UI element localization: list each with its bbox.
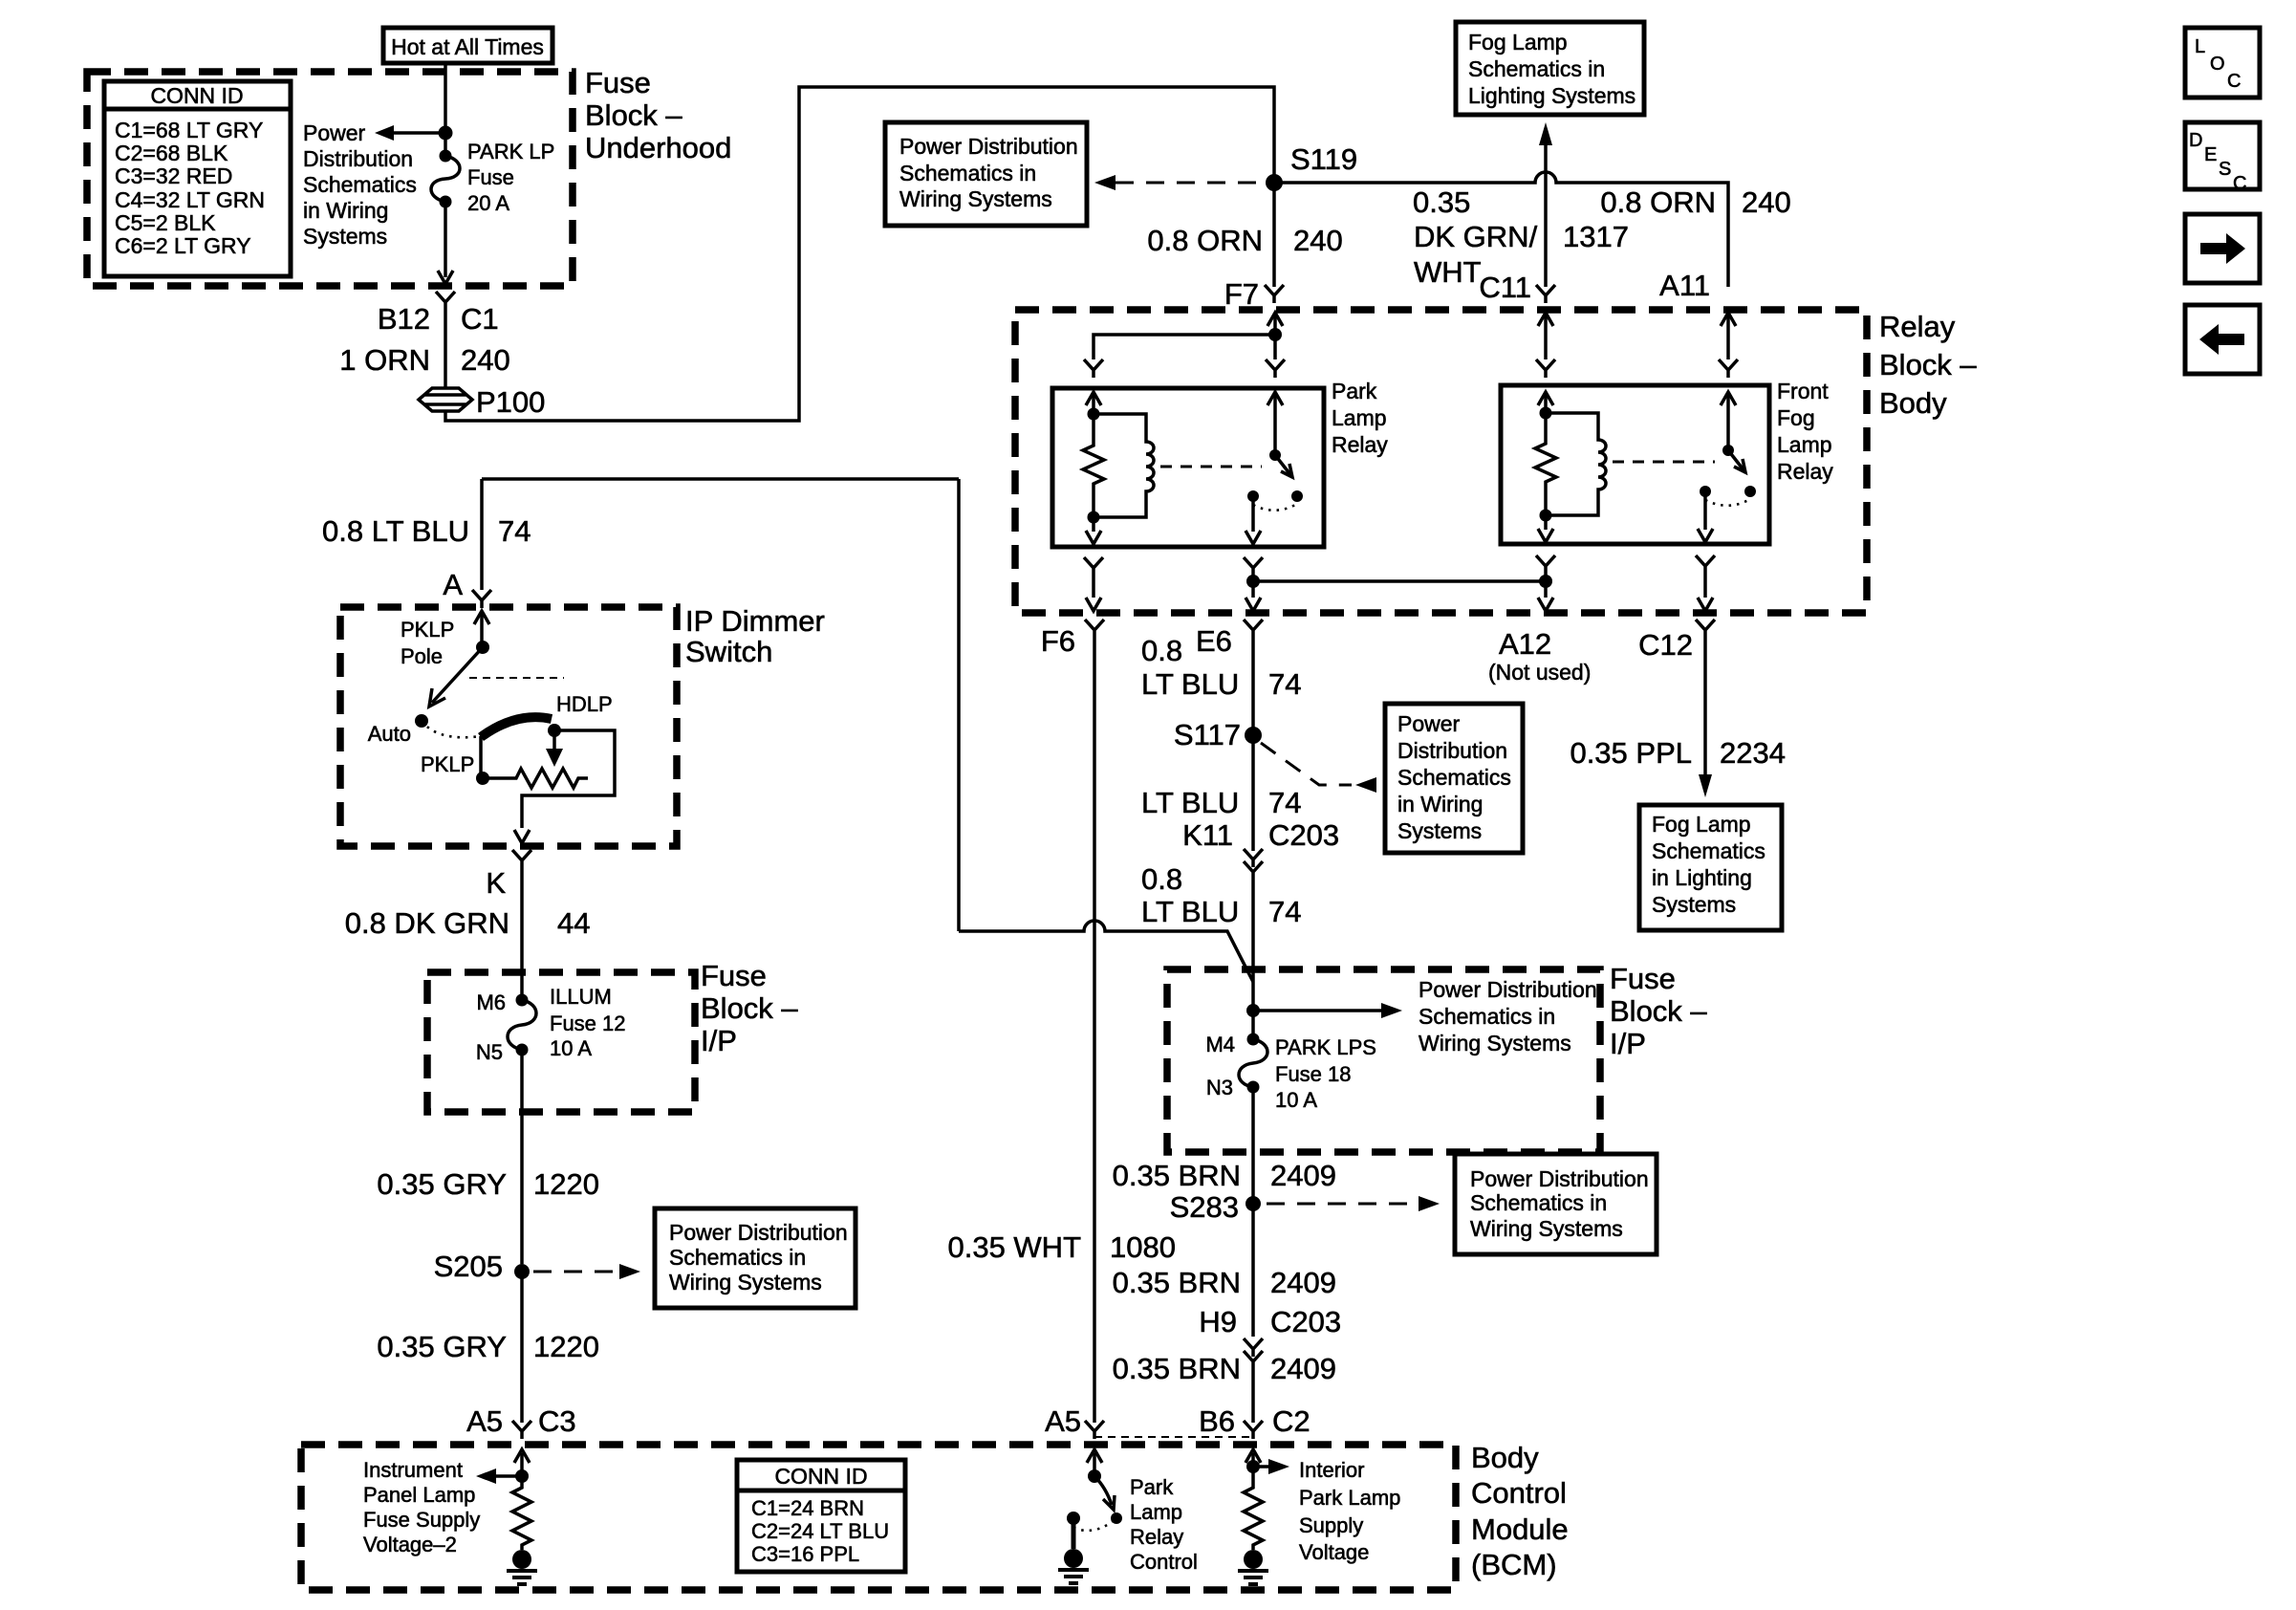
svg-text:Block –: Block –: [1610, 994, 1707, 1028]
svg-text:0.35 BRN: 0.35 BRN: [1113, 1352, 1241, 1385]
svg-text:in Wiring: in Wiring: [303, 198, 388, 223]
svg-text:C4=32 LT GRN: C4=32 LT GRN: [115, 187, 265, 212]
svg-text:Distribution: Distribution: [303, 146, 413, 171]
svg-text:C3=32 RED: C3=32 RED: [115, 163, 232, 188]
svg-text:I/P: I/P: [701, 1024, 737, 1057]
svg-text:0.8 ORN: 0.8 ORN: [1600, 185, 1716, 219]
svg-text:C1=24 BRN: C1=24 BRN: [751, 1496, 864, 1520]
svg-text:C203: C203: [1268, 818, 1339, 852]
svg-text:Wiring Systems: Wiring Systems: [669, 1270, 822, 1295]
svg-text:H9: H9: [1199, 1305, 1237, 1338]
svg-text:Fuse: Fuse: [467, 165, 514, 189]
svg-text:C12: C12: [1638, 628, 1693, 662]
svg-text:C3=16 PPL: C3=16 PPL: [751, 1542, 859, 1566]
svg-text:A5: A5: [1045, 1404, 1081, 1438]
svg-text:CONN ID: CONN ID: [150, 83, 243, 108]
svg-text:Park Lamp: Park Lamp: [1299, 1486, 1400, 1510]
svg-text:2234: 2234: [1720, 736, 1786, 770]
svg-text:2409: 2409: [1270, 1266, 1336, 1299]
svg-text:F6: F6: [1041, 624, 1075, 658]
svg-text:Fuse: Fuse: [1610, 962, 1676, 995]
svg-text:F7: F7: [1224, 277, 1259, 311]
svg-text:Block –: Block –: [585, 98, 682, 132]
svg-text:Fuse 12: Fuse 12: [550, 1012, 626, 1035]
svg-text:C: C: [2227, 71, 2241, 92]
svg-text:S205: S205: [434, 1250, 503, 1283]
svg-text:Systems: Systems: [1397, 818, 1482, 843]
svg-text:Relay: Relay: [1879, 310, 1956, 343]
svg-text:M6: M6: [476, 990, 506, 1014]
svg-text:Fuse Supply: Fuse Supply: [363, 1508, 480, 1532]
svg-text:2409: 2409: [1270, 1159, 1336, 1192]
svg-text:Lamp: Lamp: [1777, 432, 1832, 457]
svg-text:PARK LPS: PARK LPS: [1275, 1035, 1376, 1059]
svg-text:0.8: 0.8: [1141, 634, 1182, 667]
svg-text:1080: 1080: [1110, 1230, 1176, 1264]
svg-text:240: 240: [461, 343, 510, 377]
svg-text:Systems: Systems: [303, 224, 387, 249]
svg-text:(Not used): (Not used): [1488, 660, 1591, 685]
svg-text:Systems: Systems: [1652, 892, 1736, 917]
svg-text:0.35 BRN: 0.35 BRN: [1113, 1159, 1241, 1192]
svg-text:C1=68 LT GRY: C1=68 LT GRY: [115, 118, 263, 142]
svg-text:C3: C3: [538, 1404, 576, 1438]
svg-text:LT BLU: LT BLU: [1141, 786, 1239, 819]
svg-text:Panel Lamp: Panel Lamp: [363, 1483, 475, 1507]
svg-text:Hot at All Times: Hot at All Times: [391, 34, 544, 59]
svg-text:S117: S117: [1174, 718, 1241, 751]
svg-text:S: S: [2219, 159, 2231, 180]
svg-text:Wiring Systems: Wiring Systems: [899, 186, 1052, 211]
svg-text:K: K: [486, 866, 506, 900]
svg-text:HDLP: HDLP: [556, 692, 613, 716]
svg-text:Schematics in: Schematics in: [1470, 1190, 1607, 1215]
svg-text:D: D: [2189, 130, 2202, 151]
svg-text:K11: K11: [1182, 818, 1233, 852]
svg-text:(BCM): (BCM): [1471, 1548, 1557, 1581]
svg-text:0.35 BRN: 0.35 BRN: [1113, 1266, 1241, 1299]
svg-text:Lighting Systems: Lighting Systems: [1468, 83, 1635, 108]
svg-text:0.35 PPL: 0.35 PPL: [1570, 736, 1692, 770]
svg-text:PKLP: PKLP: [421, 752, 474, 776]
svg-text:Schematics: Schematics: [1652, 838, 1765, 863]
svg-text:0.8 DK GRN: 0.8 DK GRN: [345, 906, 509, 940]
svg-text:Voltage–2: Voltage–2: [363, 1533, 457, 1556]
svg-text:LT BLU: LT BLU: [1141, 895, 1239, 928]
svg-text:N5: N5: [476, 1040, 503, 1064]
svg-text:Park: Park: [1332, 379, 1377, 403]
svg-text:Fuse: Fuse: [585, 66, 651, 99]
svg-text:Block –: Block –: [701, 991, 798, 1025]
svg-text:PKLP: PKLP: [401, 618, 454, 642]
svg-text:C203: C203: [1270, 1305, 1341, 1338]
svg-text:Fog Lamp: Fog Lamp: [1468, 30, 1568, 54]
svg-text:Control: Control: [1130, 1550, 1198, 1574]
svg-text:1220: 1220: [533, 1330, 599, 1363]
svg-text:0.8 LT BLU: 0.8 LT BLU: [322, 514, 469, 548]
svg-text:Distribution: Distribution: [1397, 738, 1507, 763]
svg-text:Schematics in: Schematics in: [669, 1245, 806, 1270]
svg-text:L: L: [2195, 36, 2205, 57]
svg-text:Relay: Relay: [1332, 432, 1388, 457]
svg-text:Park: Park: [1130, 1475, 1174, 1499]
svg-text:Body: Body: [1471, 1441, 1539, 1474]
svg-text:P100: P100: [476, 385, 545, 419]
svg-text:0.35 GRY: 0.35 GRY: [377, 1330, 507, 1363]
svg-text:DK GRN/: DK GRN/: [1414, 220, 1538, 253]
svg-text:Fog: Fog: [1777, 405, 1815, 430]
svg-text:A: A: [443, 568, 463, 601]
svg-text:Auto: Auto: [368, 722, 411, 746]
svg-text:Schematics: Schematics: [1397, 765, 1511, 790]
svg-text:74: 74: [498, 514, 531, 548]
svg-text:in Wiring: in Wiring: [1397, 792, 1483, 816]
svg-text:0.8: 0.8: [1141, 862, 1182, 896]
svg-text:240: 240: [1293, 224, 1343, 257]
svg-text:B12: B12: [378, 302, 430, 336]
svg-text:C2=68 BLK: C2=68 BLK: [115, 141, 228, 165]
svg-text:A12: A12: [1499, 627, 1551, 661]
svg-text:10 A: 10 A: [550, 1036, 592, 1060]
svg-text:Relay: Relay: [1777, 459, 1833, 484]
svg-text:Module: Module: [1471, 1512, 1569, 1546]
svg-text:Interior: Interior: [1299, 1458, 1364, 1482]
svg-text:74: 74: [1268, 895, 1301, 928]
svg-text:1 ORN: 1 ORN: [339, 343, 430, 377]
svg-text:1317: 1317: [1563, 220, 1629, 253]
svg-text:240: 240: [1742, 185, 1791, 219]
svg-text:I/P: I/P: [1610, 1027, 1646, 1060]
svg-text:10 A: 10 A: [1275, 1088, 1317, 1112]
svg-text:LT BLU: LT BLU: [1141, 667, 1239, 701]
svg-text:Relay: Relay: [1130, 1525, 1183, 1549]
svg-text:C1: C1: [461, 302, 499, 336]
svg-text:Front: Front: [1777, 379, 1829, 403]
svg-text:Voltage: Voltage: [1299, 1540, 1369, 1564]
svg-text:Switch: Switch: [685, 635, 772, 668]
svg-text:ILLUM: ILLUM: [550, 985, 612, 1009]
svg-text:0.35 GRY: 0.35 GRY: [377, 1167, 507, 1201]
svg-text:A11: A11: [1659, 269, 1710, 302]
svg-text:20 A: 20 A: [467, 191, 509, 215]
svg-text:C11: C11: [1479, 271, 1531, 304]
svg-text:Power: Power: [1397, 711, 1461, 736]
svg-text:74: 74: [1268, 667, 1301, 701]
svg-text:1220: 1220: [533, 1167, 599, 1201]
svg-text:C5=2 BLK: C5=2 BLK: [115, 210, 216, 235]
svg-text:O: O: [2210, 54, 2225, 75]
svg-text:IP Dimmer: IP Dimmer: [685, 604, 825, 638]
svg-text:C: C: [2233, 173, 2246, 194]
svg-text:Power Distribution: Power Distribution: [1419, 977, 1597, 1002]
svg-text:Schematics: Schematics: [303, 172, 417, 197]
svg-text:CONN ID: CONN ID: [774, 1464, 867, 1489]
svg-text:PARK LP: PARK LP: [467, 140, 554, 163]
svg-text:C2=24 LT BLU: C2=24 LT BLU: [751, 1519, 889, 1543]
svg-text:Power Distribution: Power Distribution: [669, 1220, 848, 1245]
svg-text:0.35 WHT: 0.35 WHT: [947, 1230, 1081, 1264]
svg-text:E6: E6: [1196, 624, 1232, 658]
svg-text:Power Distribution: Power Distribution: [899, 134, 1078, 159]
svg-text:C6=2 LT GRY: C6=2 LT GRY: [115, 233, 251, 258]
svg-text:S119: S119: [1290, 142, 1357, 176]
svg-text:M4: M4: [1205, 1033, 1235, 1056]
svg-text:Body: Body: [1879, 386, 1947, 420]
svg-text:N3: N3: [1206, 1076, 1233, 1099]
svg-text:Schematics in: Schematics in: [899, 161, 1036, 185]
svg-text:Wiring Systems: Wiring Systems: [1419, 1031, 1571, 1055]
svg-text:Fuse 18: Fuse 18: [1275, 1062, 1352, 1086]
svg-text:Wiring Systems: Wiring Systems: [1470, 1216, 1623, 1241]
svg-text:44: 44: [557, 906, 590, 940]
svg-text:S283: S283: [1170, 1190, 1239, 1224]
svg-text:A5: A5: [466, 1404, 503, 1438]
svg-text:WHT: WHT: [1414, 255, 1482, 289]
svg-text:Block –: Block –: [1879, 348, 1977, 381]
svg-text:Power: Power: [303, 120, 366, 145]
svg-text:Schematics in: Schematics in: [1468, 56, 1605, 81]
svg-text:Instrument: Instrument: [363, 1458, 463, 1482]
svg-text:Lamp: Lamp: [1130, 1500, 1182, 1524]
svg-text:Supply: Supply: [1299, 1513, 1363, 1537]
svg-text:Fuse: Fuse: [701, 959, 767, 992]
svg-text:74: 74: [1268, 786, 1301, 819]
svg-text:0.35: 0.35: [1413, 185, 1470, 219]
svg-text:Pole: Pole: [401, 644, 443, 668]
svg-text:in Lighting: in Lighting: [1652, 865, 1752, 890]
svg-text:Schematics in: Schematics in: [1419, 1004, 1555, 1029]
svg-text:E: E: [2204, 144, 2217, 165]
svg-text:0.8 ORN: 0.8 ORN: [1147, 224, 1263, 257]
svg-text:Underhood: Underhood: [585, 131, 731, 164]
svg-text:Lamp: Lamp: [1332, 405, 1387, 430]
svg-text:Control: Control: [1471, 1476, 1567, 1510]
svg-text:Fog Lamp: Fog Lamp: [1652, 812, 1751, 837]
svg-text:Power Distribution: Power Distribution: [1470, 1166, 1649, 1191]
svg-text:2409: 2409: [1270, 1352, 1336, 1385]
svg-text:B6: B6: [1199, 1404, 1235, 1438]
svg-text:C2: C2: [1272, 1404, 1310, 1438]
